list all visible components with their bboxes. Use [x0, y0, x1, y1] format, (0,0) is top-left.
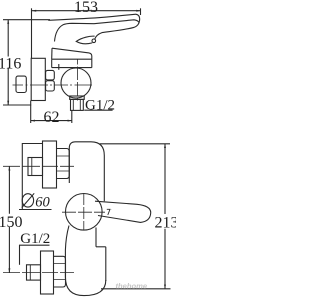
- bottom centerline: [3, 272, 74, 274]
- outlet inner pipe lines: [73, 99, 80, 110]
- dimension 116 line: [7, 20, 9, 105]
- bottom dome arc: [65, 277, 105, 296]
- handle tip: [134, 14, 139, 27]
- svg-text:G1/2: G1/2: [85, 98, 115, 114]
- dimension 213 bottom arrow: [164, 285, 166, 289]
- svg-text:116: 116: [0, 56, 21, 73]
- extension line top of 213: [100, 143, 170, 145]
- bottom flange: [41, 251, 54, 294]
- outlet block: [71, 99, 84, 110]
- extension line left of 62: [30, 101, 32, 124]
- extension line top of 116: [3, 19, 50, 21]
- dimension 150 line: [8, 166, 10, 272]
- wall plate: [31, 58, 45, 100]
- top eccentric nipple: [28, 158, 43, 176]
- hex nut left: [16, 76, 26, 92]
- dimension 153 right arrow: [136, 10, 140, 12]
- dimension 116 top arrow: [7, 20, 9, 24]
- svg-text:60: 60: [35, 195, 50, 211]
- cap right edge: [89, 53, 92, 59]
- dimension 150 bottom arrow: [8, 268, 10, 272]
- extension line left of 153: [31, 8, 33, 58]
- hex nut right of plate upper: [46, 70, 55, 80]
- dimension 153 line: [32, 10, 141, 12]
- bottom nut facets: [54, 264, 66, 280]
- dimension 62 line: [31, 120, 72, 122]
- top centerline: [3, 165, 74, 167]
- dimension 213 top arrow: [164, 144, 166, 148]
- dimension 213 line: [164, 144, 166, 289]
- dimension 116 bottom arrow: [7, 101, 9, 105]
- svg-text:thehome: thehome: [116, 282, 148, 291]
- lever blade: [95, 201, 151, 222]
- G1/2 underline bottom: [19, 244, 50, 246]
- svg-text:213: 213: [155, 215, 177, 232]
- lower body right edge neck: [95, 228, 97, 247]
- circle vertical centerline: [83, 194, 85, 231]
- dimension 62 right arrow: [68, 120, 72, 122]
- handle tail: [76, 36, 94, 44]
- top nut: [57, 149, 70, 179]
- extension line right of 153: [140, 8, 142, 15]
- diameter 60 underline: [19, 209, 52, 211]
- G1/2 leader underline top: [84, 109, 112, 111]
- extension line right of 62: [71, 111, 73, 124]
- outlet collar band: [70, 96, 85, 99]
- bottom nut: [54, 256, 66, 287]
- svg-text:62: 62: [44, 109, 60, 126]
- lever ball: [92, 39, 96, 43]
- housing body rect: [52, 59, 92, 67]
- dimension 62 left arrow: [31, 120, 35, 122]
- housing neck joint: [58, 64, 60, 70]
- handle underside: [95, 27, 135, 39]
- extension line bottom of 213: [101, 288, 171, 290]
- lever indicator mark: [107, 209, 112, 215]
- hex nut right of plate lower: [46, 81, 55, 91]
- body top dome: [69, 142, 104, 202]
- handle lever top edge: [48, 14, 135, 20]
- lower body shoulder step: [96, 246, 106, 248]
- lower body right edge: [105, 247, 107, 281]
- cap slanted top: [52, 48, 89, 53]
- svg-text:153: 153: [74, 0, 98, 16]
- cartridge circle: [66, 194, 103, 231]
- top flange: [43, 141, 57, 188]
- body circle: [61, 68, 91, 98]
- vertical centerline of body: [77, 60, 79, 101]
- bottom eccentric nipple: [27, 265, 41, 280]
- diameter 60 leader: [22, 144, 42, 210]
- dimension 150 top arrow: [8, 166, 10, 170]
- dimension 153 left arrow: [32, 10, 36, 12]
- top nut facets: [57, 156, 70, 171]
- svg-text:150: 150: [0, 214, 23, 231]
- G1/2 leader bottom: [19, 245, 21, 265]
- diameter 60 symbol: [22, 194, 33, 207]
- handle bulge top and inner line: [55, 20, 140, 42]
- extension line bottom of 116: [3, 104, 31, 106]
- lower body left edge: [65, 226, 69, 278]
- circle horizontal centerline: [62, 211, 105, 213]
- cap left edge: [51, 48, 53, 59]
- horizontal centerline of supply: [13, 84, 93, 86]
